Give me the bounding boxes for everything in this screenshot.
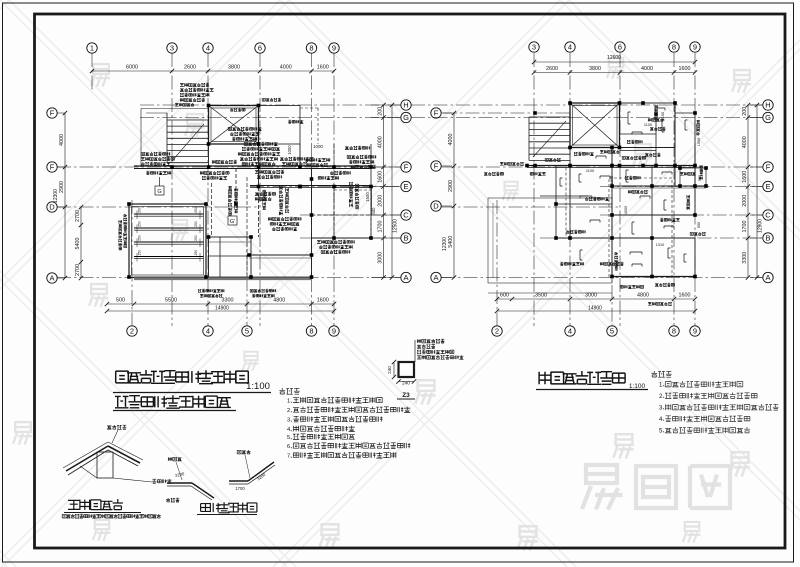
right plan left dimension chain [453,113,455,278]
svg-text:250: 250 [138,207,142,213]
right plan annotation blobs [648,118,663,121]
svg-text:200: 200 [742,107,748,116]
svg-text:H: H [765,101,770,110]
svg-text:250: 250 [194,221,198,227]
left plan eaves lines top-left [141,108,208,110]
right plan upper-right rooms [620,103,696,187]
svg-text:3000: 3000 [585,293,597,299]
svg-text:5500: 5500 [165,298,177,304]
svg-text:3300: 3300 [742,252,748,264]
svg-text:250: 250 [138,235,142,241]
svg-text:C: C [403,211,409,220]
svg-text:8: 8 [672,43,676,52]
svg-text:4000: 4000 [377,136,383,148]
svg-text:14900: 14900 [215,306,229,312]
svg-text:4000: 4000 [448,134,454,146]
svg-text:2、: 2、 [659,394,668,400]
svg-text:2000: 2000 [377,195,383,207]
svg-text:1700: 1700 [742,221,748,233]
svg-text:1000: 1000 [313,144,323,149]
svg-text:F: F [766,163,771,172]
svg-text:12900: 12900 [758,219,764,233]
left plan lower-middle room [209,237,252,278]
beam-slab fold detail left [166,457,214,502]
svg-text:A: A [433,273,438,282]
svg-text:8: 8 [309,44,313,53]
right plan top axis circles [529,42,539,52]
svg-text:400: 400 [371,207,376,215]
left notes block [279,388,410,460]
svg-text:4800: 4800 [637,293,649,299]
title: 4F slab reinforcement plan [536,371,648,390]
svg-text:6、: 6、 [287,444,296,450]
left plan annotation blobs [180,83,209,87]
caption: beam slab fold method [197,502,257,514]
right notes block [651,371,778,435]
svg-text:12500: 12500 [393,219,399,233]
svg-text:F: F [434,109,439,118]
right plan right axis circles [763,100,773,110]
svg-text:240: 240 [387,366,392,374]
left plan bottom dimension chains [107,303,334,305]
left plan rotated annotations [228,186,232,215]
svg-text:A: A [765,273,770,282]
svg-text:1000: 1000 [697,138,701,146]
svg-text:G: G [157,189,161,195]
svg-text:D: D [433,202,439,211]
svg-text:2900: 2900 [59,181,65,193]
svg-text:B: B [403,234,408,243]
watermark big text [582,465,623,510]
svg-text:4000: 4000 [280,65,292,71]
left plan left dimension chains [64,113,66,278]
svg-text:6000: 6000 [126,65,138,71]
svg-text:5400: 5400 [448,236,454,248]
svg-text:6: 6 [258,44,262,53]
svg-text:4000: 4000 [59,134,65,146]
svg-text:250: 250 [194,207,198,213]
column section detail Z3 [387,339,464,399]
left plan right axis circles [401,100,411,110]
svg-text:A: A [403,273,408,282]
svg-text:7、: 7、 [287,454,296,460]
svg-text:4000: 4000 [624,206,628,214]
left plan columns [207,104,211,108]
right plan slab reinforcement marks [560,108,688,267]
right plan stair hatch [529,117,570,161]
svg-text:12300: 12300 [442,237,448,251]
svg-text:E: E [403,182,408,191]
svg-text:250: 250 [194,235,198,241]
svg-text:5: 5 [610,327,614,336]
svg-text:9: 9 [693,43,697,52]
right plan bottom axis circles [492,326,502,336]
svg-text:G: G [403,113,409,122]
left plan section mark G [155,177,164,195]
svg-text:1、: 1、 [287,399,296,405]
svg-text:F: F [50,163,55,172]
svg-text:500: 500 [116,298,125,304]
svg-text:3300: 3300 [222,298,234,304]
svg-text:2: 2 [495,327,499,336]
svg-text:1600: 1600 [679,66,691,72]
right plan bottom dimension chains [497,298,695,300]
svg-text:2900: 2900 [448,180,454,192]
right plan bay window right [680,168,706,186]
svg-text:1600: 1600 [742,171,748,183]
svg-text:14900: 14900 [588,306,602,312]
svg-text:8: 8 [309,327,313,336]
left plan right dimension chains [383,105,385,278]
svg-text:1100: 1100 [661,112,665,120]
svg-text:A: A [49,274,54,283]
left plan right bay dashed [334,190,371,238]
svg-text:3800: 3800 [228,65,240,71]
right plan top dimension chains [534,61,695,63]
left plan top dimension chain [92,70,334,72]
svg-text:D: D [49,203,55,212]
svg-text:9: 9 [332,327,336,336]
svg-text:H: H [403,101,408,110]
svg-text:4: 4 [206,327,210,336]
svg-text:250: 250 [194,250,198,256]
right plan axis grid [411,53,763,326]
svg-text:3000: 3000 [377,252,383,264]
svg-text:550: 550 [697,222,701,228]
svg-text:2600: 2600 [546,66,558,72]
svg-text:12300: 12300 [53,189,59,203]
right plan left axis circles [431,108,441,118]
svg-text:C: C [765,211,771,220]
svg-text:3: 3 [532,43,536,52]
right plan mid horizontals [556,203,612,205]
svg-text:G: G [765,113,771,122]
svg-text:8: 8 [672,327,676,336]
svg-text:E: E [765,182,770,191]
right plan roof slab with X bracing [570,103,620,148]
svg-text:250: 250 [138,250,142,256]
svg-text:1600: 1600 [365,192,370,202]
title: 4F structural layout & beam reinforcement 1:100 [113,370,271,393]
svg-text:3800: 3800 [589,66,601,72]
svg-text:1100: 1100 [586,169,594,173]
svg-text:B: B [765,234,770,243]
caption: ridge node [62,499,161,518]
roof ridge node detail [63,425,172,483]
svg-text:1700: 1700 [377,221,383,233]
right plan E-axis wall [612,185,706,187]
svg-text:1600: 1600 [317,298,329,304]
svg-text:1800: 1800 [610,176,614,184]
svg-text:F: F [434,162,439,171]
svg-text:9: 9 [693,327,697,336]
svg-text:1600: 1600 [377,171,383,183]
beam-slab fold detail right [229,450,275,491]
svg-text:1600: 1600 [679,293,691,299]
svg-text:600: 600 [500,293,509,299]
svg-text:2700: 2700 [75,210,81,222]
left plan bottom axis circles [127,326,137,336]
svg-text:200: 200 [377,107,383,116]
svg-text:F: F [404,163,409,172]
svg-text:4800: 4800 [273,298,285,304]
left plan section mark G' [228,216,237,225]
svg-text:9: 9 [332,44,336,53]
svg-text:1600: 1600 [317,65,329,71]
svg-text:F: F [50,109,55,118]
right plan mid verticals [569,148,571,239]
svg-text:4000: 4000 [641,66,653,72]
svg-text:4: 4 [206,44,210,53]
left plan left axis circles [47,108,57,118]
svg-text:5、: 5、 [287,435,296,441]
svg-text:2000: 2000 [742,195,748,207]
left plan right-lower walls [312,214,372,216]
svg-text:5: 5 [245,327,249,336]
svg-text:2700: 2700 [75,264,81,276]
left plan axis grid [57,53,401,326]
svg-text:Z3: Z3 [402,392,410,399]
svg-text:1: 1 [90,44,94,53]
svg-text:4: 4 [568,327,572,336]
svg-text:1100: 1100 [644,123,652,127]
left plan bottom wall band [134,277,312,280]
svg-text:12600: 12600 [607,55,621,61]
svg-text:6: 6 [618,43,622,52]
right plan columns [568,101,572,105]
svg-text:1:100: 1:100 [246,381,270,392]
svg-text:3: 3 [170,44,174,53]
svg-text:4000: 4000 [742,136,748,148]
right plan right dimension chain [747,105,749,278]
left plan E-axis wall [250,185,371,187]
title: partial 3F roof layout [113,395,236,410]
left plan top axis circles [87,43,97,53]
right plan lower room [612,238,695,277]
right plan F-axis wall [527,165,695,167]
svg-text:G': G' [230,219,235,225]
left plan roof slab with X bracing [209,106,259,145]
svg-text:250: 250 [138,221,142,227]
svg-text:4: 4 [568,43,572,52]
svg-text:1000: 1000 [287,145,292,155]
svg-text:2600: 2600 [184,65,196,71]
svg-text:4、: 4、 [287,427,296,433]
svg-text:1310: 1310 [656,243,664,247]
right plan terrace outline [488,198,612,293]
left plan stair hatch [167,113,208,163]
left plan interior vertical walls [208,144,210,166]
svg-text:5400: 5400 [75,238,81,250]
left plan right roof rect [259,106,301,145]
svg-text:2: 2 [130,327,134,336]
left plan F-axis wall [134,165,371,167]
right plan inner dashed room [609,178,672,277]
svg-text:3500: 3500 [535,293,547,299]
svg-text:1700: 1700 [235,486,245,491]
left plan lower-left room [129,204,206,278]
